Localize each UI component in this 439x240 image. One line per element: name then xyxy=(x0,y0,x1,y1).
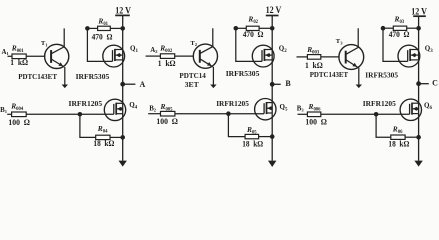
svg-text:PDTC143ET: PDTC143ET xyxy=(310,70,349,79)
svg-text:1 kΩ: 1 kΩ xyxy=(158,59,176,68)
svg-text:100 Ω: 100 Ω xyxy=(8,118,30,127)
svg-text:1 kΩ: 1 kΩ xyxy=(10,58,28,67)
svg-text:B2: B2 xyxy=(149,106,157,113)
svg-text:IRFR1205: IRFR1205 xyxy=(216,99,249,108)
svg-text:B3: B3 xyxy=(297,105,305,112)
svg-text:B1: B1 xyxy=(0,107,8,114)
svg-text:C: C xyxy=(432,79,438,88)
svg-text:B: B xyxy=(285,79,291,88)
svg-text:IRFR1205: IRFR1205 xyxy=(69,99,103,108)
svg-text:A1: A1 xyxy=(2,49,10,56)
svg-text:18 kΩ: 18 kΩ xyxy=(242,140,263,149)
svg-text:IRFR5305: IRFR5305 xyxy=(365,71,398,80)
svg-text:18 kΩ: 18 kΩ xyxy=(93,139,114,148)
svg-text:100 Ω: 100 Ω xyxy=(156,117,178,126)
svg-text:IRFR1205: IRFR1205 xyxy=(363,99,396,108)
svg-text:18 kΩ: 18 kΩ xyxy=(388,139,409,148)
svg-text:12 V: 12 V xyxy=(266,6,282,16)
svg-text:1 kΩ: 1 kΩ xyxy=(305,61,323,70)
svg-text:470 Ω: 470 Ω xyxy=(92,32,113,41)
svg-text:470 Ω: 470 Ω xyxy=(389,30,410,39)
svg-text:IRFR5305: IRFR5305 xyxy=(76,72,110,81)
svg-text:A2: A2 xyxy=(150,47,158,54)
svg-text:IRFR5305: IRFR5305 xyxy=(226,69,260,78)
svg-text:PDTC143ET: PDTC143ET xyxy=(18,72,57,81)
svg-text:100 Ω: 100 Ω xyxy=(305,117,327,126)
svg-text:470 Ω: 470 Ω xyxy=(243,30,264,39)
svg-text:3ET: 3ET xyxy=(185,80,199,89)
svg-text:A: A xyxy=(140,80,146,89)
svg-text:PDTC14: PDTC14 xyxy=(179,71,206,80)
